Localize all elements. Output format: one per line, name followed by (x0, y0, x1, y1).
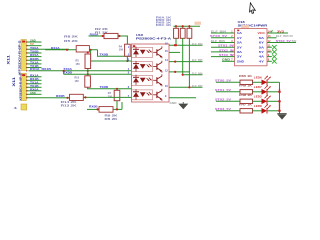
svg-text:6Y: 6Y (259, 41, 265, 45)
svg-text:2A: 2A (237, 41, 242, 45)
svg-text:GND: GND (30, 92, 36, 95)
svg-text:X11: X11 (12, 77, 16, 87)
svg-text:150: 150 (76, 63, 81, 66)
svg-text:5Y: 5Y (259, 50, 265, 54)
svg-text:R8 2K: R8 2K (64, 35, 78, 39)
svg-text:LED5: LED5 (254, 95, 263, 99)
svg-text:TX0B: TX0B (100, 86, 109, 89)
svg-text:R6 2K: R6 2K (105, 117, 118, 121)
svg-text:R49 1K: R49 1K (239, 83, 252, 87)
svg-text:GND: GND (222, 59, 230, 62)
svg-text:ELF_B07: ELF_B07 (192, 85, 203, 88)
svg-text:100: 100 (119, 49, 124, 52)
svg-text:KF2EDGV-R-6P-S: KF2EDGV-R-6P-S (18, 74, 22, 101)
svg-text:R13 2K: R13 2K (61, 104, 77, 108)
svg-text:GND: GND (170, 102, 177, 105)
svg-text:R48 1K: R48 1K (239, 93, 252, 97)
svg-text:R2 2K: R2 2K (95, 27, 108, 31)
svg-text:GND: GND (237, 59, 244, 63)
svg-text:LED6: LED6 (254, 76, 263, 80)
svg-text:LED8: LED8 (254, 104, 263, 108)
svg-text:LED7: LED7 (254, 85, 263, 89)
svg-text:-S: -S (14, 106, 17, 110)
svg-text:TX0B: TX0B (30, 50, 39, 53)
svg-text:ELF_B05: ELF_B05 (211, 40, 226, 43)
svg-text:TX0B: TX0B (100, 53, 109, 56)
svg-text:STX3_5V: STX3_5V (219, 54, 234, 57)
svg-text:R60 1K: R60 1K (239, 74, 252, 78)
svg-text:3V3: 3V3 (277, 30, 285, 33)
svg-text:150: 150 (75, 80, 80, 83)
svg-text:ELF_B05: ELF_B05 (192, 59, 203, 62)
svg-text:R6C 1K: R6C 1K (156, 24, 172, 27)
svg-text:5V: 5V (30, 43, 34, 46)
svg-text:R47 1K: R47 1K (239, 102, 252, 106)
svg-text:GND: GND (30, 40, 36, 43)
svg-text:ELF_B04: ELF_B04 (211, 30, 227, 33)
svg-text:3A: 3A (237, 50, 242, 54)
svg-text:STX2_5V: STX2_5V (219, 49, 234, 52)
svg-text:4Y: 4Y (259, 59, 265, 63)
svg-text:2Y: 2Y (237, 45, 243, 49)
svg-text:6A: 6A (259, 36, 264, 40)
svg-text:1Y: 1Y (237, 36, 243, 40)
svg-text:PS2805C-4-F3-A: PS2805C-4-F3-A (136, 37, 172, 41)
svg-text:TX0A: TX0A (30, 47, 39, 50)
svg-text:RX0B: RX0B (89, 106, 98, 109)
svg-text:X11: X11 (6, 55, 10, 65)
svg-text:RX0A: RX0A (30, 54, 39, 57)
svg-text:5V: 5V (292, 40, 298, 43)
svg-text:5A: 5A (259, 45, 264, 49)
svg-text:TX0B: TX0B (63, 72, 72, 75)
svg-text:STX1_5V: STX1_5V (218, 45, 234, 48)
svg-text:TX1A: TX1A (30, 61, 39, 64)
svg-text:1A: 1A (237, 31, 242, 35)
svg-text:ELF_B05 5V: ELF_B05 5V (276, 35, 293, 38)
svg-text:ELF_B04: ELF_B04 (192, 43, 203, 46)
svg-text:KF2EDGV-R-6P-S: KF2EDGV-R-6P-S (17, 41, 21, 75)
svg-text:3Y: 3Y (237, 55, 243, 59)
svg-text:ELF_B06: ELF_B06 (192, 72, 203, 75)
svg-text:R9 2K: R9 2K (105, 113, 118, 117)
svg-text:STX0_5V: STX0_5V (276, 40, 291, 43)
svg-text:RX0B: RX0B (30, 58, 39, 61)
svg-text:VCC: VCC (258, 31, 266, 35)
svg-text:R5 2K: R5 2K (64, 39, 78, 43)
svg-text:STX0_5V: STX0_5V (210, 35, 228, 38)
svg-text:4A: 4A (259, 55, 264, 59)
